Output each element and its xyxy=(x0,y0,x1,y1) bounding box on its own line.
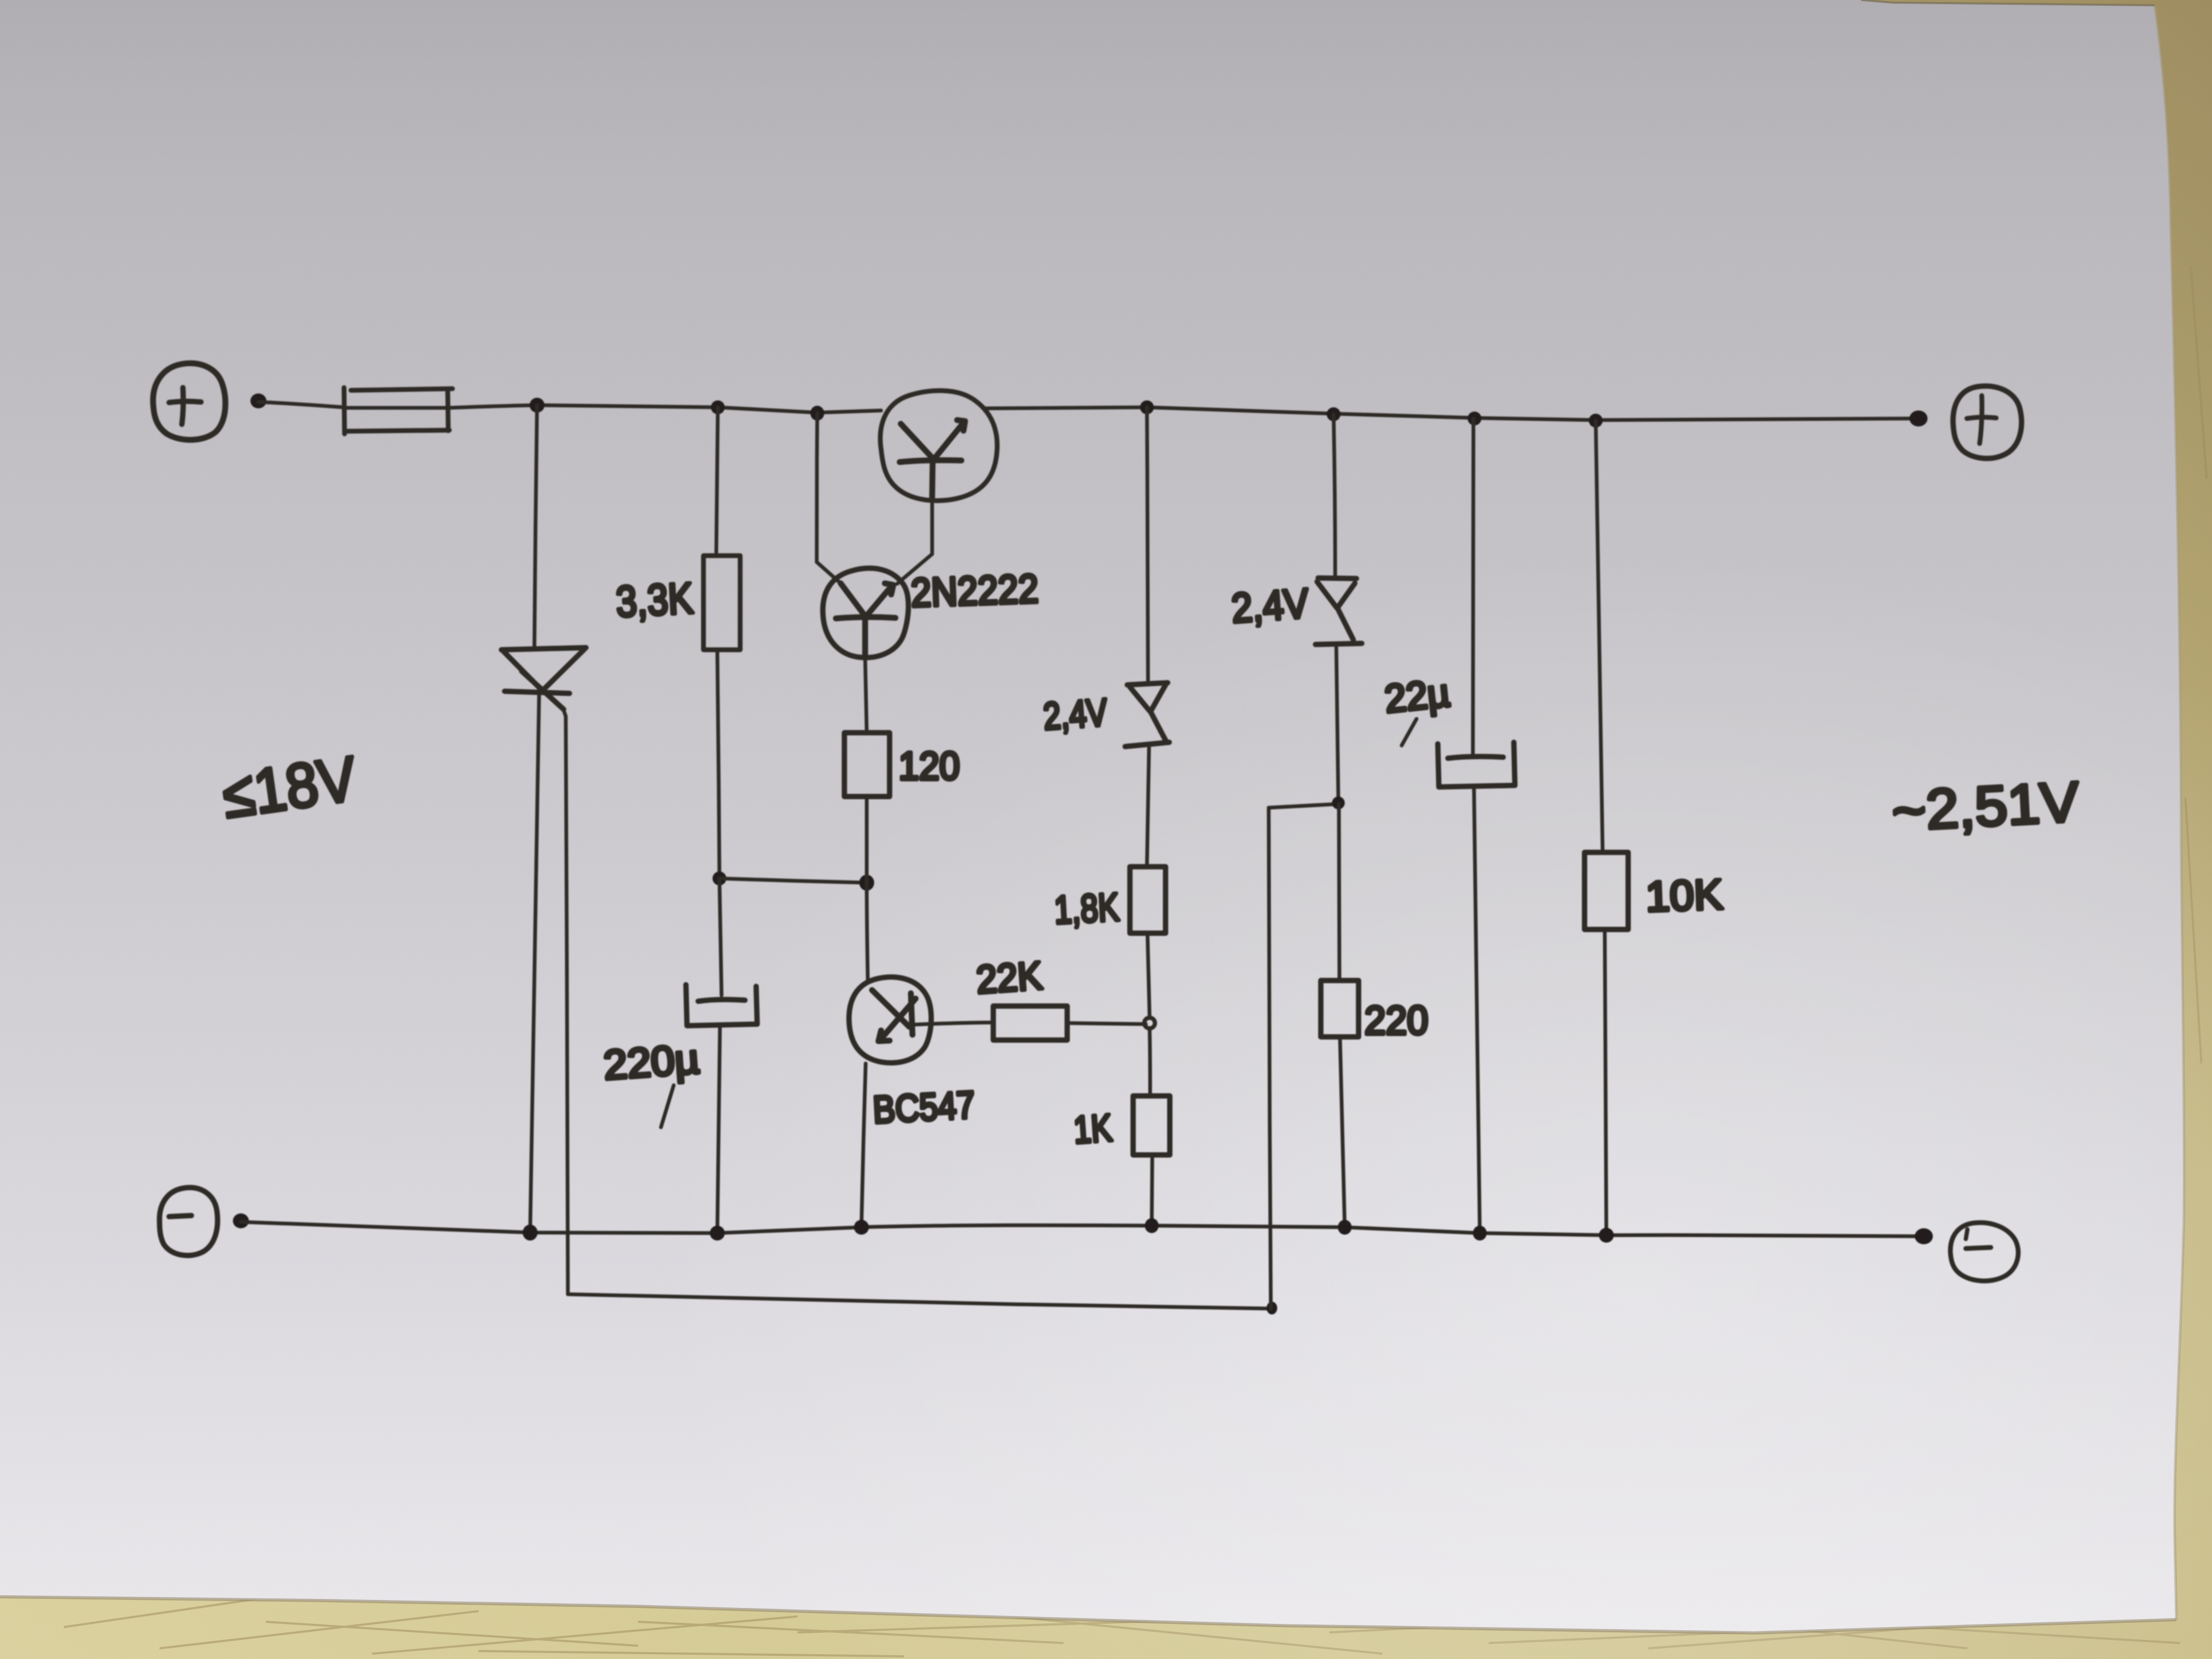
wire: J1 to J2 xyxy=(537,405,718,407)
junction J10 (ring) xyxy=(1144,1018,1155,1028)
wire: J3 down to Q2 base xyxy=(817,413,817,562)
wire: J8 to J9 (horizontal link) xyxy=(719,878,866,883)
label 22u slash xyxy=(1402,719,1417,745)
resistor R5 1K xyxy=(1133,1096,1170,1155)
svg-text:2N2222: 2N2222 xyxy=(910,566,1040,616)
resistor R7 10K xyxy=(1585,852,1628,929)
svg-text:2,4V: 2,4V xyxy=(1042,691,1109,738)
wire: J5 down to zener Z1 xyxy=(1334,414,1335,575)
svg-text:3,3K: 3,3K xyxy=(615,574,694,626)
minus sign (input) xyxy=(169,1216,191,1217)
capacitor C2 22u top plate xyxy=(1448,757,1503,758)
junction J6 xyxy=(1468,412,1481,425)
junction J3 xyxy=(810,406,824,421)
svg-text:220µ: 220µ xyxy=(602,1035,701,1088)
wire: J3 to Q1 circle xyxy=(817,410,881,413)
input terminal dot (+) xyxy=(250,393,266,408)
minus sign (output) xyxy=(1966,1247,1991,1249)
wire: 220 to bottom rail xyxy=(1340,1037,1345,1227)
junction B2 (220u) xyxy=(710,1226,725,1241)
wire: gate route up to zener node xyxy=(1269,808,1271,1309)
terminal circle - (input, left) xyxy=(160,1187,217,1255)
Q1 internals xyxy=(900,420,965,498)
capacitor C1 220u top plate xyxy=(698,1000,745,1001)
resistor R1 3,3K xyxy=(703,556,740,650)
output terminal dot (+) xyxy=(1909,410,1928,426)
junction zener node xyxy=(1332,797,1345,809)
wire: zener node down to 220 xyxy=(1339,804,1339,981)
gate route corner blob xyxy=(1267,1302,1277,1314)
wire: J9 to BC547 collector xyxy=(867,883,868,980)
junction J5 xyxy=(1327,407,1340,421)
resistor R6 220 xyxy=(1321,981,1359,1037)
wire: Z2 to 1,8K xyxy=(1147,745,1149,867)
transistor Q1 (upper 2N2222) circle xyxy=(881,391,998,501)
terminal circle - (output, right) xyxy=(1950,1222,2018,1281)
junction B5 (220) xyxy=(1338,1220,1352,1235)
wire: Q1 emitter down xyxy=(931,498,934,554)
junction B1 (SCR cathode) xyxy=(523,1225,538,1241)
wire: BC547 emitter to bottom rail xyxy=(861,1063,866,1227)
transistor Q3 BC547 circle xyxy=(849,977,932,1062)
wire: through fuse to junction J1 xyxy=(345,406,448,410)
thyristor SCR (crowbar) xyxy=(501,648,586,709)
SCR gate lead xyxy=(563,707,566,716)
Q3 internals xyxy=(872,990,916,1041)
svg-text:BC547: BC547 xyxy=(872,1084,976,1132)
plus sign (input terminal) xyxy=(169,401,201,403)
output terminal dot (-) xyxy=(1915,1228,1933,1244)
junction J2 xyxy=(711,400,725,414)
resistor R3 22K (horizontal) xyxy=(993,1006,1067,1040)
wire: BC547 base to 22K xyxy=(912,1023,993,1025)
fuse F1 xyxy=(344,388,453,434)
wire: cap 220u to bottom rail xyxy=(717,1026,720,1233)
wire: J4 to J5 xyxy=(1147,407,1334,414)
wire: + terminal to fuse xyxy=(258,402,344,407)
input terminal dot (-) xyxy=(233,1213,249,1228)
wire: Q1 circle to J4 xyxy=(984,407,1147,408)
wire: gate route bottom horizontal xyxy=(568,1294,1271,1309)
junction J7 xyxy=(1589,414,1603,428)
paper top sliver edge xyxy=(1861,0,2155,5)
paper edge shading bottom xyxy=(0,1597,2176,1633)
bottom rail wire xyxy=(241,1222,1923,1236)
zener Z1 2,4V xyxy=(1316,578,1362,644)
junction B6 (22u) xyxy=(1473,1226,1487,1241)
wire: J5 to J6 xyxy=(1334,414,1474,418)
junction B4 (1K) xyxy=(1145,1218,1159,1233)
wire: J2 to J3 xyxy=(718,407,817,413)
junction J9 xyxy=(859,875,874,891)
wire: J7 to + terminal right xyxy=(1596,418,1917,420)
zener Z2 2,4V xyxy=(1125,683,1169,747)
wire: J4 down to zener Z2 xyxy=(1147,407,1148,681)
capacitor C1 220u cup xyxy=(686,985,757,1026)
wire: 120 to J9 xyxy=(865,797,869,883)
junction J8 xyxy=(713,872,726,885)
junction J4 xyxy=(1140,400,1154,414)
wire: J2 down to 3.3K xyxy=(716,407,718,556)
svg-text:22µ: 22µ xyxy=(1382,671,1452,721)
wire: Z1 to zener node xyxy=(1336,643,1338,802)
svg-text:2,4V: 2,4V xyxy=(1230,580,1310,632)
svg-text:1,8K: 1,8K xyxy=(1053,885,1120,932)
wire: 3.3K to junction J8 xyxy=(717,650,719,878)
wire: 22K to divider node J10 xyxy=(1067,1023,1146,1024)
paper edge shading right xyxy=(2155,5,2184,1620)
wire: 10K to bottom rail xyxy=(1605,929,1606,1235)
wire: J10 to 1K xyxy=(1150,1028,1150,1096)
wire: cap 22u to bottom rail xyxy=(1474,787,1480,1233)
svg-text:10K: 10K xyxy=(1645,870,1723,920)
wire: SCR cathode to bottom rail xyxy=(530,690,539,1233)
terminal circle + (output, right) xyxy=(1953,386,2022,458)
wire: 1,8K to J10 xyxy=(1147,933,1150,1018)
transistor Q2 (lower 2N2222) circle xyxy=(823,568,908,658)
junction B3 (BC547 emitter) xyxy=(854,1220,869,1235)
junction J1 xyxy=(530,398,544,413)
Q2 internals xyxy=(836,583,895,657)
svg-text:1K: 1K xyxy=(1073,1107,1113,1152)
resistor R2 120 xyxy=(844,733,890,797)
wire: J7 down to 10K xyxy=(1596,421,1603,852)
wire: Q2 emitter to 120 resistor xyxy=(865,657,867,733)
wire: Q1 emitter to Q2 collector (kink) xyxy=(897,554,932,584)
wire: J6 to J7 xyxy=(1474,418,1596,420)
svg-text:22K: 22K xyxy=(975,953,1043,1002)
wire: zener node horizontal xyxy=(1269,804,1338,808)
terminal circle + (input, left) xyxy=(153,363,225,440)
junction B7 (10K) xyxy=(1599,1228,1614,1243)
wire: 1K to bottom rail xyxy=(1152,1155,1152,1226)
svg-text:120: 120 xyxy=(899,744,960,788)
label 220u slash xyxy=(661,1085,674,1127)
plus sign (output terminal) xyxy=(1967,417,1996,418)
wire: J8 down to cap 220u xyxy=(719,878,722,995)
resistor R4 1,8K xyxy=(1130,867,1166,933)
svg-text:220: 220 xyxy=(1364,998,1428,1043)
wire: J1 down to thyristor anode xyxy=(534,405,537,648)
tick on output minus circle xyxy=(1966,1229,1967,1239)
wire: SCR gate down xyxy=(566,716,568,1294)
capacitor C2 22u cup xyxy=(1438,742,1515,787)
svg-text:~2,51V: ~2,51V xyxy=(1890,770,2081,843)
wire: J6 down to cap 22u xyxy=(1473,418,1473,757)
